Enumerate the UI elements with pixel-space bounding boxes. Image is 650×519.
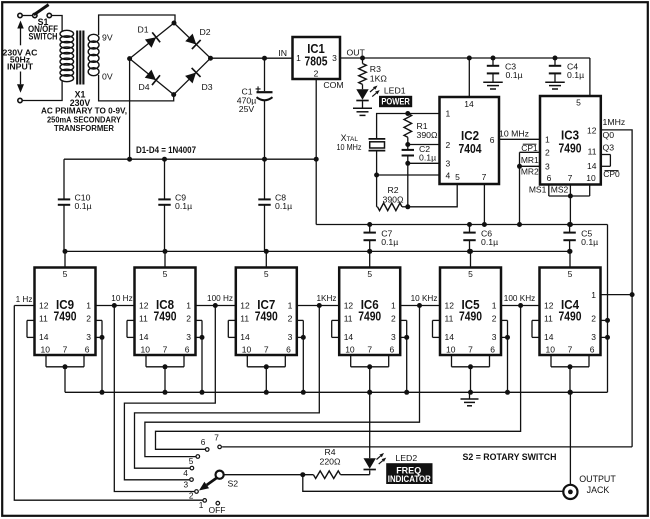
svg-text:10: 10 — [41, 345, 51, 355]
IC7 pins 11-14 tie — [228, 320, 236, 337]
wire IC2 pin14 to +5V — [468, 58, 470, 97]
IC5 pins 10-7-6 ground bracket — [452, 355, 490, 395]
wire IC2 pin4 — [377, 174, 440, 176]
svg-text:INPUT: INPUT — [7, 62, 34, 72]
svg-text:14: 14 — [344, 332, 354, 342]
svg-text:MR1: MR1 — [521, 155, 539, 165]
svg-text:0.1µ: 0.1µ — [506, 70, 523, 80]
svg-text:11: 11 — [39, 313, 48, 323]
svg-text:0.1µ: 0.1µ — [75, 201, 92, 211]
crystal XTAL 10MHz — [369, 139, 386, 175]
wire IC6 pin5 +5V — [369, 251, 371, 267]
node R3 tap — [360, 56, 365, 61]
wire bridge right node to IC1 IN — [211, 57, 293, 59]
capacitor C3 0.1u — [487, 58, 499, 82]
node C8 on ground rail — [262, 157, 267, 162]
label POWER — [379, 96, 412, 107]
ground below C4 — [545, 82, 565, 89]
capacitor C10 0.1u — [58, 159, 70, 251]
svg-text:12: 12 — [240, 301, 250, 311]
node DC- on ground rail — [127, 157, 132, 162]
svg-text:1KHz: 1KHz — [316, 294, 336, 303]
node C9 on ground rail — [162, 157, 167, 162]
wire 10KHz to contact 5 — [145, 306, 420, 457]
wire +5V rail B — [64, 250, 570, 252]
wire ground rail A — [316, 224, 607, 226]
label XTAL 10 MHz — [337, 133, 362, 152]
svg-text:10: 10 — [546, 345, 556, 355]
label 10 MHz — [499, 129, 529, 139]
svg-text:12: 12 — [139, 301, 149, 311]
svg-text:2: 2 — [545, 148, 550, 158]
label Q0 — [603, 130, 615, 140]
svg-text:7404: 7404 — [459, 142, 482, 156]
label LED2 — [395, 453, 417, 463]
wire IC5 pin5 +5V — [470, 251, 472, 267]
svg-text:5: 5 — [576, 97, 581, 107]
label R3 1K — [370, 64, 388, 83]
svg-text:3: 3 — [446, 159, 451, 169]
node R1 top — [405, 111, 410, 116]
svg-text:100 KHz: 100 KHz — [504, 294, 535, 303]
svg-text:3: 3 — [492, 332, 497, 342]
svg-text:D1-D4 = 1N4007: D1-D4 = 1N4007 — [136, 145, 196, 155]
wire 100Hz to contact 3 — [124, 306, 215, 480]
S2 contact 1 — [199, 499, 207, 510]
wire upper ground rail — [64, 158, 316, 160]
wire 1MHz from IC3 pin12 — [601, 130, 632, 447]
svg-text:12: 12 — [39, 301, 49, 311]
label IN — [278, 48, 287, 58]
svg-text:3: 3 — [591, 332, 596, 342]
svg-text:IC3: IC3 — [561, 128, 579, 142]
wire C2 to pin3 — [407, 156, 409, 164]
svg-text:12: 12 — [445, 301, 455, 311]
wire IC3 MS to ground rail A — [569, 196, 571, 225]
label C2 0.1u — [419, 144, 436, 162]
label CP0 — [603, 169, 620, 179]
label D2 — [199, 27, 210, 37]
diode D4 — [145, 70, 160, 85]
wire ground rail A right drop — [607, 225, 609, 393]
svg-text:7805: 7805 — [305, 55, 328, 69]
svg-text:7490: 7490 — [54, 310, 77, 324]
capacitor C2 0.1u — [402, 150, 414, 156]
svg-text:INDICATOR: INDICATOR — [388, 474, 431, 484]
svg-text:6: 6 — [547, 173, 552, 183]
label C3 0.1u — [505, 61, 523, 80]
svg-text:10 KHz: 10 KHz — [411, 294, 438, 303]
transformer X1 core — [77, 31, 83, 85]
node frequency tap — [317, 303, 322, 308]
svg-text:7490: 7490 — [459, 310, 482, 324]
label 10 Hz — [111, 294, 132, 303]
svg-text:7: 7 — [568, 173, 573, 183]
svg-text:14: 14 — [445, 332, 455, 342]
svg-text:11: 11 — [344, 313, 353, 323]
IC4 pins 10-7-6 ground bracket — [551, 355, 589, 395]
wire IC2 pin3 — [408, 162, 440, 164]
S2 pole — [216, 471, 224, 479]
wire S2 output to jack — [303, 475, 564, 492]
svg-text:5: 5 — [63, 269, 68, 279]
svg-text:12: 12 — [587, 126, 597, 136]
node bridge right — [208, 56, 213, 61]
S2 contact 5 — [189, 455, 200, 466]
svg-text:1: 1 — [296, 53, 301, 63]
svg-text:10: 10 — [242, 345, 252, 355]
svg-text:D3: D3 — [201, 82, 212, 92]
svg-text:7490: 7490 — [154, 310, 177, 324]
IC regulator IC1 7805 — [293, 37, 341, 79]
svg-text:11: 11 — [588, 146, 597, 156]
svg-text:5: 5 — [163, 269, 168, 279]
capacitor C1 470u 25V — [257, 58, 273, 159]
capacitor C8 0.1u — [258, 159, 270, 251]
svg-text:0.1µ: 0.1µ — [481, 237, 498, 247]
node MS ground — [568, 222, 573, 227]
svg-text:1: 1 — [591, 290, 596, 300]
svg-text:1: 1 — [545, 135, 550, 145]
node R1 bottom / pin2 — [405, 142, 410, 147]
svg-text:11: 11 — [544, 313, 553, 323]
label C5 0.1u — [581, 229, 598, 247]
output jack — [563, 485, 577, 499]
terminal 230V AC neutral (bottom) — [18, 98, 22, 102]
svg-text:6: 6 — [286, 345, 291, 355]
svg-text:11: 11 — [139, 313, 148, 323]
label C6 0.1u — [481, 229, 498, 247]
IC3 7490 — [540, 96, 601, 185]
label S1 ON/OFF SWITCH — [28, 17, 59, 41]
capacitor C9 0.1u — [158, 159, 170, 251]
svg-text:MR2: MR2 — [521, 166, 539, 176]
svg-text:4: 4 — [183, 468, 188, 478]
IC5 7490 — [440, 268, 501, 356]
label FREQ INDICATOR — [386, 463, 432, 484]
label S2 = ROTARY SWITCH — [463, 452, 557, 462]
node IC6 pin5 rail — [367, 249, 372, 254]
node IC9 pin5 rail — [63, 249, 68, 254]
switch S1 — [22, 5, 51, 18]
svg-text:2: 2 — [492, 314, 497, 324]
IC6 pins 10-7-6 ground bracket — [351, 355, 389, 395]
wire IC3 reset to ground rail A — [519, 166, 521, 224]
svg-text:220Ω: 220Ω — [320, 456, 341, 466]
IC9 pins 2-3 tie and ground drop — [96, 320, 105, 394]
svg-text:1: 1 — [288, 301, 293, 311]
svg-text:Q0: Q0 — [603, 130, 615, 140]
svg-text:7: 7 — [482, 172, 487, 182]
S2 contact 4 — [183, 466, 194, 478]
label 0V — [102, 72, 113, 82]
svg-text:100 Hz: 100 Hz — [207, 294, 233, 303]
svg-text:7: 7 — [468, 345, 473, 355]
node IC8 pin5 rail — [163, 249, 168, 254]
IC6 pins 2-3 tie and ground drop — [400, 320, 409, 394]
svg-text:1: 1 — [186, 301, 191, 311]
svg-text:12: 12 — [544, 301, 554, 311]
svg-text:1: 1 — [446, 109, 451, 119]
label OUTPUT JACK — [579, 474, 616, 495]
wire bridge edge left-top — [130, 23, 174, 59]
svg-text:2: 2 — [391, 314, 396, 324]
label MS1 — [529, 185, 547, 195]
svg-text:12: 12 — [344, 301, 354, 311]
node IC3 MS junction — [568, 194, 573, 199]
svg-text:7490: 7490 — [358, 310, 381, 324]
svg-text:10 MHz: 10 MHz — [499, 129, 529, 139]
node frequency tap — [417, 303, 422, 308]
svg-text:2: 2 — [186, 314, 191, 324]
label R4 220 — [320, 447, 341, 466]
svg-text:5: 5 — [568, 269, 573, 279]
svg-text:6: 6 — [490, 345, 495, 355]
IC7 pins 10-7-6 ground bracket — [247, 355, 285, 395]
svg-text:14: 14 — [587, 161, 597, 171]
label MR1 — [521, 155, 539, 165]
svg-text:0.1µ: 0.1µ — [275, 201, 292, 211]
IC6 7490 — [339, 268, 400, 356]
svg-text:+: + — [255, 85, 261, 96]
wire IC4 pin12 — [521, 305, 540, 307]
wire secondary 0V to bridge bottom node — [99, 75, 174, 101]
node COM on ground rail — [314, 157, 319, 162]
svg-text:10: 10 — [141, 345, 151, 355]
svg-text:Q3: Q3 — [603, 143, 615, 153]
IC3 pins 11-14 tie bracket — [601, 155, 611, 167]
wire +5V to IC3 pin5 — [589, 58, 591, 96]
S2 contact 3 — [183, 478, 193, 490]
wire IC7 pin12 — [215, 305, 236, 307]
label AC PRIMARY TO 0-9V, 250mA SECONDARY TRANSFORMER — [41, 106, 127, 133]
capacitor C4 0.1u — [549, 58, 561, 82]
capacitor C7 0.1u — [364, 225, 376, 252]
terminal 230V AC live (top-left) — [18, 13, 22, 17]
node IC7 pin5 rail — [264, 249, 269, 254]
label 100 KHz — [504, 294, 535, 303]
svg-text:TRANSFORMER: TRANSFORMER — [54, 123, 115, 133]
label 1MHz — [603, 117, 626, 127]
wire IC8 pin12 — [114, 305, 134, 307]
svg-text:7: 7 — [367, 345, 372, 355]
label C10 0.1u — [75, 192, 92, 210]
svg-text:5: 5 — [455, 172, 460, 182]
svg-text:3: 3 — [545, 162, 550, 172]
node jack ground — [568, 390, 573, 395]
svg-text:14: 14 — [39, 332, 49, 342]
IC4 7490 — [540, 268, 601, 356]
ground symbol on bus — [461, 392, 479, 406]
wire bridge edge left-bottom — [130, 59, 174, 95]
IC9 pins 10-7-6 ground bracket — [46, 355, 84, 392]
svg-text:5: 5 — [367, 269, 372, 279]
transformer X1 primary winding — [60, 30, 74, 81]
svg-text:9V: 9V — [102, 33, 113, 43]
svg-text:0.1µ: 0.1µ — [381, 237, 398, 247]
svg-text:IN: IN — [278, 48, 287, 58]
svg-text:0.1µ: 0.1µ — [175, 201, 192, 211]
svg-text:7490: 7490 — [255, 310, 278, 324]
input up arrow — [17, 21, 24, 46]
IC5 pins 2-3 tie and ground drop — [501, 320, 510, 394]
label R1 390 — [417, 121, 438, 140]
node IC4 pin5 rail — [568, 249, 573, 254]
IC8 pins 11-14 tie — [127, 320, 135, 337]
IC7 7490 — [236, 268, 297, 356]
svg-text:COM: COM — [323, 80, 343, 90]
wire R4 to LED2 — [341, 474, 370, 476]
wire IC1 OUT rail — [340, 57, 590, 59]
svg-text:2: 2 — [86, 314, 91, 324]
svg-text:2: 2 — [446, 140, 451, 150]
wire ground bus — [65, 391, 608, 393]
svg-text:14: 14 — [544, 332, 554, 342]
svg-text:7: 7 — [568, 345, 573, 355]
svg-text:D4: D4 — [138, 82, 149, 92]
label 1 Hz — [16, 295, 33, 304]
IC8 pins 10-7-6 ground bracket — [146, 355, 184, 395]
node pin3 — [405, 161, 410, 166]
node C4 on rail — [553, 56, 558, 61]
label S2 — [228, 478, 239, 488]
svg-text:D1: D1 — [137, 24, 148, 34]
ground below LED1 — [353, 101, 372, 115]
svg-text:10 MHz: 10 MHz — [337, 142, 362, 152]
wire IC7 pin1 — [297, 305, 320, 307]
svg-text:1KΩ: 1KΩ — [370, 74, 388, 84]
label D3 — [201, 82, 212, 92]
svg-text:11: 11 — [240, 313, 249, 323]
svg-text:10 Hz: 10 Hz — [111, 294, 132, 303]
wire xtal top to IC2 pin1 — [377, 114, 440, 139]
resistor R2 390 — [377, 203, 408, 211]
input down arrow — [17, 72, 24, 93]
node IC3 reset ground — [517, 222, 522, 227]
svg-text:14: 14 — [139, 332, 149, 342]
node xtal bottom / pin4 — [374, 173, 379, 178]
svg-text:JACK: JACK — [587, 485, 610, 495]
wire IC4 pin5 +5V — [569, 251, 571, 267]
resistor R4 220 — [313, 471, 340, 479]
svg-text:6: 6 — [201, 437, 206, 447]
wire IC5 pin1 — [501, 305, 521, 307]
S2 contact 2 — [189, 490, 198, 501]
wire IC9 pin1 — [96, 305, 115, 307]
resistor R3 1K — [359, 58, 367, 84]
wire R1 to C2 — [407, 137, 409, 150]
svg-text:10: 10 — [446, 345, 456, 355]
svg-text:25V: 25V — [239, 104, 255, 114]
LED2 — [364, 453, 387, 475]
wire neutral to transformer primary bottom — [22, 81, 62, 101]
label MR2 — [521, 166, 539, 176]
wire 10 MHz IC2 pin6 to IC3 pin1 — [499, 138, 540, 140]
diode D1 — [145, 32, 160, 47]
svg-text:OFF: OFF — [209, 505, 226, 515]
svg-text:3: 3 — [391, 332, 396, 342]
LED1 — [356, 84, 379, 100]
svg-text:IC2: IC2 — [461, 129, 479, 143]
svg-text:MS1: MS1 — [529, 185, 547, 195]
svg-text:2: 2 — [189, 491, 194, 501]
IC4 pins 11-14 tie — [532, 320, 540, 337]
node C3 on rail — [491, 56, 496, 61]
label D1 — [137, 24, 148, 34]
wire 10Hz to contact 2 — [114, 306, 194, 492]
wire bridge left node to ground rail — [129, 59, 131, 160]
label R2 390 — [383, 185, 404, 204]
label C4 0.1u — [567, 61, 584, 80]
node IC4 pin1 on 1MHz line — [630, 292, 635, 297]
label Q3 — [603, 143, 615, 153]
IC3 pins 2-3 tie bracket — [520, 152, 541, 166]
node IC2 pin14 on rail — [467, 56, 472, 61]
wire bridge edge bottom-right — [174, 58, 211, 94]
svg-text:7490: 7490 — [559, 310, 582, 324]
ground below C3 — [483, 82, 503, 89]
IC2 7404 — [440, 97, 500, 184]
node IC2 pin7 ground — [482, 222, 487, 227]
svg-text:3: 3 — [288, 332, 293, 342]
node C5 bottom — [567, 249, 572, 254]
node C6 top — [467, 222, 472, 227]
svg-text:7: 7 — [214, 432, 219, 442]
wire IC9 pin5 +5V — [64, 251, 66, 267]
svg-text:MS2: MS2 — [551, 185, 569, 195]
svg-text:LED2: LED2 — [395, 453, 417, 463]
svg-text:7490: 7490 — [559, 141, 582, 155]
wire bridge edge top-right — [174, 23, 211, 58]
resistor R1 390 — [404, 114, 412, 138]
svg-text:6: 6 — [490, 135, 495, 145]
label C7 0.1u — [381, 229, 398, 247]
svg-text:11: 11 — [445, 313, 454, 323]
svg-text:1 Hz: 1 Hz — [16, 295, 33, 304]
wire IC2 pin2 — [408, 144, 440, 146]
S2 contact OFF — [209, 501, 226, 515]
svg-text:S2 = ROTARY SWITCH: S2 = ROTARY SWITCH — [463, 452, 557, 462]
wire IC5 pin12 — [420, 305, 441, 307]
node IC5 pin5 rail — [468, 249, 473, 254]
svg-text:6: 6 — [185, 345, 190, 355]
label 1KHz — [316, 294, 336, 303]
wire xtal bottom down to R2 — [376, 175, 378, 207]
node bridge left — [127, 56, 132, 61]
wire IC7 pin5 +5V — [265, 251, 267, 267]
label D1-D4 = 1N4007 — [136, 145, 196, 155]
svg-text:5: 5 — [189, 456, 194, 466]
label OUT — [347, 47, 366, 57]
IC8 pins 2-3 tie and ground drop — [196, 320, 205, 394]
IC9 pins 11-14 tie — [27, 320, 35, 337]
wire 100KHz to contact 6 — [156, 306, 521, 450]
wire IC9 pin12 — [14, 305, 34, 307]
wire 1KHz to contact 4 — [135, 306, 320, 469]
svg-text:1MHz: 1MHz — [603, 117, 626, 127]
label C8 0.1u — [275, 192, 292, 210]
IC5 pins 11-14 tie — [433, 320, 441, 337]
node C6 bottom — [467, 249, 472, 254]
wire 1MHz to contact 7 — [222, 446, 632, 448]
IC9 7490 — [35, 268, 96, 356]
label COM — [323, 80, 343, 90]
label 10 KHz — [411, 294, 438, 303]
svg-text:2: 2 — [591, 314, 596, 324]
wire IC6 pin12 — [319, 305, 339, 307]
diode D2 — [185, 34, 200, 49]
svg-text:6: 6 — [85, 345, 90, 355]
